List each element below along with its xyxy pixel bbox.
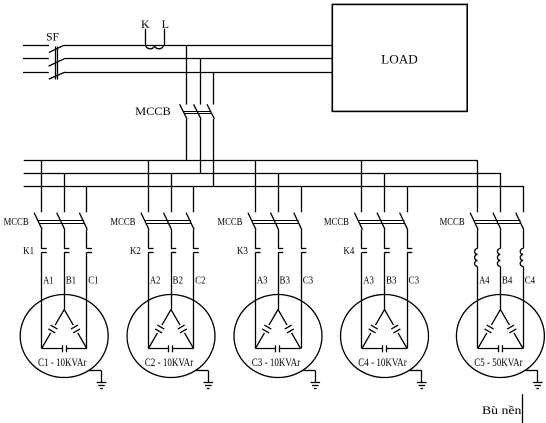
wire bus L2 drop branch 5 pole 2	[500, 173, 502, 212]
branch 5 breaker MCCB	[470, 213, 524, 230]
label SF	[46, 30, 59, 44]
svg-text:C1 - 10KVAr: C1 - 10KVAr	[38, 357, 87, 369]
label Bù nền	[482, 403, 521, 417]
wire branch 4 pole 2 MCCB to contactor	[384, 230, 386, 249]
bus bar L2	[24, 173, 501, 175]
svg-text:B3: B3	[280, 276, 291, 287]
branch 4 breaker MCCB	[354, 213, 407, 230]
node B4	[502, 276, 513, 287]
svg-text:MCCB: MCCB	[110, 217, 135, 228]
svg-text:C3 - 10KVAr: C3 - 10KVAr	[252, 357, 301, 369]
wire bus L1 drop branch 2 pole 1	[148, 160, 150, 212]
svg-text:A3: A3	[257, 276, 268, 287]
wire main MCCB pole 2 to bus	[200, 119, 202, 173]
wire bus L3 drop branch 1 pole 3	[86, 186, 88, 212]
svg-text:C2: C2	[195, 276, 206, 287]
svg-text:C4: C4	[525, 276, 536, 287]
label MCCB branch 4	[324, 217, 349, 228]
wire bus L3 drop branch 2 pole 3	[193, 186, 195, 212]
node A4	[479, 276, 490, 287]
svg-text:C3: C3	[409, 276, 420, 287]
wire branch 2 pole 1 MCCB to contactor	[148, 230, 150, 249]
wire branch 4 pole 3 to capacitor	[407, 252, 409, 348]
wire branch 4 pole 3 MCCB to contactor	[407, 230, 409, 249]
ground 1	[90, 371, 107, 389]
ground 3	[303, 371, 320, 389]
wire bus L2 drop branch 2 pole 2	[171, 173, 173, 212]
svg-text:MCCB: MCCB	[440, 217, 465, 228]
svg-text:K: K	[141, 17, 150, 31]
wire branch 5 pole 1 to capacitor	[477, 267, 479, 349]
svg-text:MCCB: MCCB	[4, 217, 29, 228]
wire tap phase A to main MCCB	[186, 45, 188, 104]
branch 1 breaker MCCB	[34, 213, 87, 230]
wire branch 1 pole 2 MCCB to contactor	[64, 230, 66, 249]
bus bar L3	[24, 186, 524, 188]
svg-text:MCCB: MCCB	[324, 217, 349, 228]
wire phase C right	[65, 72, 332, 74]
wire main MCCB pole 1 to bus	[186, 119, 188, 160]
disconnect switch SF	[49, 45, 65, 79]
wire branch 3 pole 1 MCCB to contactor	[255, 230, 257, 249]
svg-text:K4: K4	[343, 246, 355, 257]
load box	[332, 4, 467, 111]
label C3 value	[252, 357, 301, 369]
label K	[141, 17, 150, 31]
label MCCB branch 3	[217, 217, 242, 228]
ground 2	[196, 371, 213, 389]
label K1	[23, 246, 34, 257]
contactor K2	[148, 249, 198, 253]
wire branch 1 pole 3 MCCB to contactor	[86, 230, 88, 249]
contactor K1	[42, 249, 92, 253]
label K4	[343, 246, 355, 257]
wire branch 5 pole 1 MCCB to reactor	[477, 230, 479, 249]
svg-text:L: L	[162, 17, 169, 31]
label MCCB branch 2	[110, 217, 135, 228]
node A3	[257, 276, 268, 287]
label C1 value	[38, 357, 87, 369]
svg-text:C4 - 10KVAr: C4 - 10KVAr	[358, 357, 407, 369]
wire branch 5 pole 3 MCCB to reactor	[523, 230, 525, 249]
wire tap phase C to main MCCB	[213, 72, 215, 104]
svg-text:C3: C3	[303, 276, 314, 287]
svg-text:K2: K2	[130, 246, 141, 257]
svg-text:C1: C1	[88, 276, 99, 287]
wire bus L3 drop branch 3 pole 3	[301, 186, 303, 212]
svg-text:B2: B2	[173, 276, 184, 287]
wire phase A left	[23, 45, 49, 47]
wire branch 2 pole 2 to capacitor	[171, 252, 173, 309]
wire branch 3 pole 2 MCCB to contactor	[278, 230, 280, 249]
capacitor bank C3	[234, 295, 322, 378]
node C3	[409, 276, 420, 287]
svg-text:MCCB: MCCB	[217, 217, 242, 228]
svg-text:MCCB: MCCB	[135, 106, 171, 118]
wire bus L3 drop branch 4 pole 3	[407, 186, 409, 212]
label LOAD	[381, 52, 418, 67]
wire branch 4 pole 1 MCCB to contactor	[361, 230, 363, 249]
wire bus L2 drop branch 4 pole 2	[384, 173, 386, 212]
capacitor bank C4	[341, 295, 429, 378]
svg-text:LOAD: LOAD	[381, 52, 418, 67]
current transformer CT	[146, 29, 165, 49]
capacitor bank C2	[127, 295, 215, 378]
node B3	[280, 276, 291, 287]
wire branch 2 pole 2 MCCB to contactor	[171, 230, 173, 249]
wire tap phase B to main MCCB	[200, 59, 202, 105]
node B3	[386, 276, 397, 287]
wire phase C left	[23, 72, 49, 74]
ground 5	[526, 371, 543, 389]
svg-text:B3: B3	[386, 276, 397, 287]
contactor K4	[362, 249, 412, 253]
wire bus L1 drop branch 1 pole 1	[41, 160, 43, 212]
svg-text:A1: A1	[43, 276, 54, 287]
wire bus L3 drop branch 5 pole 3	[523, 186, 525, 212]
label L	[162, 17, 169, 31]
svg-text:C5 - 50KVAr: C5 - 50KVAr	[474, 357, 523, 369]
contactor K3	[255, 249, 306, 253]
wire branch 1 pole 1 to capacitor	[41, 252, 43, 348]
wire branch 2 pole 1 to capacitor	[148, 252, 150, 348]
wire branch 1 pole 1 MCCB to contactor	[41, 230, 43, 249]
wire phase A right	[64, 45, 332, 47]
wire branch 4 pole 1 to capacitor	[361, 252, 363, 348]
reactors L5	[475, 249, 524, 267]
node A3	[363, 276, 374, 287]
svg-text:SF: SF	[46, 30, 59, 44]
svg-text:K1: K1	[23, 246, 34, 257]
wire branch 2 pole 3 to capacitor	[193, 252, 195, 348]
svg-text:A2: A2	[150, 276, 161, 287]
node B2	[173, 276, 184, 287]
ground 4	[410, 371, 427, 389]
wire branch 1 pole 2 to capacitor	[64, 252, 66, 309]
wire bus L2 drop branch 1 pole 2	[64, 173, 66, 212]
label K2	[130, 246, 141, 257]
svg-text:C2 - 10KVAr: C2 - 10KVAr	[145, 357, 194, 369]
label C4 value	[358, 357, 407, 369]
wire bus L2 drop branch 3 pole 2	[278, 173, 280, 212]
capacitor bank C1	[20, 295, 108, 378]
wire bus L1 drop branch 3 pole 1	[255, 160, 257, 212]
label C2 value	[145, 357, 194, 369]
main breaker MCCB	[180, 104, 215, 119]
wire branch 3 pole 1 to capacitor	[255, 252, 257, 348]
node A1	[43, 276, 54, 287]
node A2	[150, 276, 161, 287]
wire branch 4 pole 2 to capacitor	[384, 252, 386, 309]
branch 3 breaker MCCB	[248, 213, 302, 230]
capacitor bank C5	[456, 295, 544, 378]
wire branch 1 pole 3 to capacitor	[86, 252, 88, 348]
label MCCB branch 5	[440, 217, 465, 228]
wire phase B left	[23, 58, 49, 60]
wire branch 3 pole 3 to capacitor	[301, 252, 303, 348]
wire bus L1 drop branch 5 pole 1	[477, 160, 479, 212]
svg-text:A3: A3	[363, 276, 374, 287]
node B1	[66, 276, 77, 287]
node C2	[195, 276, 206, 287]
node C1	[88, 276, 99, 287]
wire branch 3 pole 3 MCCB to contactor	[301, 230, 303, 249]
wire branch 5 pole 2 to capacitor	[500, 267, 502, 310]
svg-text:B4: B4	[502, 276, 513, 287]
wire main MCCB pole 3 to bus	[213, 119, 215, 186]
label K3	[237, 246, 248, 257]
bus bar L1	[24, 160, 478, 162]
svg-text:Bù nền: Bù nền	[482, 403, 521, 417]
branch 2 breaker MCCB	[141, 213, 194, 230]
wire branch 2 pole 3 MCCB to contactor	[193, 230, 195, 249]
wire bus L1 drop branch 4 pole 1	[361, 160, 363, 212]
wire branch 3 pole 2 to capacitor	[278, 252, 280, 309]
node C4	[525, 276, 536, 287]
label MCCB main	[135, 106, 171, 118]
wire branch 5 pole 3 to capacitor	[523, 267, 525, 349]
wire phase B right	[64, 58, 332, 60]
wire Bù nền leader	[522, 394, 524, 423]
svg-text:A4: A4	[479, 276, 490, 287]
label MCCB branch 1	[4, 217, 29, 228]
wire branch 5 pole 2 MCCB to reactor	[500, 230, 502, 249]
label C5 value	[474, 357, 523, 369]
svg-text:B1: B1	[66, 276, 77, 287]
node C3	[303, 276, 314, 287]
svg-text:K3: K3	[237, 246, 248, 257]
